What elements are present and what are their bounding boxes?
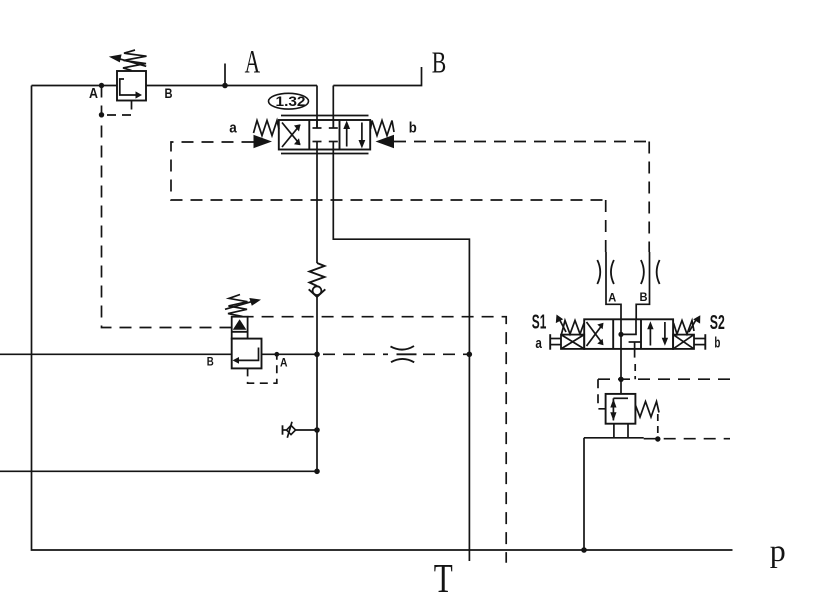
wire drain stub dashed link [634,364,636,379]
reducing valve V2 pilot head [232,317,248,339]
node junction (584,550) [581,547,587,553]
svg-text:p: p [770,532,786,568]
wire to node (317,430) and below [316,354,318,471]
svg-text:A: A [608,291,616,305]
wire reducing valve outlet to node [262,353,318,355]
wire V3 spring drain dashed [657,414,659,439]
node junction (469.3,354.3) [467,352,473,358]
valve 1.32 right spring [371,121,395,136]
S-valve left solenoid box [561,335,584,349]
S-valve right spring [674,321,695,335]
wire left vertical main frame [32,86,733,551]
wire test point to line [296,429,317,431]
svg-text:T: T [434,555,453,601]
wire V1 drain dashed [102,101,132,116]
S-valve right cell flow arrows [649,327,651,346]
relief valve V1 adjust arrow [118,58,146,66]
reducing valve V2 spring [228,295,248,317]
node junction A-tap (225,85.5) [222,83,228,89]
wire relief pilot dashed left loop [598,379,606,409]
svg-text:a: a [229,119,237,136]
test point symbol [282,425,284,434]
relief valve V3 spring [635,402,659,418]
relief valve V1 internal flow arrow [120,79,136,95]
valve 1.32 proportional line bottom [281,153,369,155]
svg-text:b: b [409,120,417,137]
nozzle B restrictor [641,260,644,284]
wire orifice line dashed [317,353,388,355]
wire relief pilot dashed horizontal [598,378,733,380]
node junction (317,354.3) [314,352,320,358]
S-valve right solenoid arrow [689,318,697,332]
S-valve port a cap [549,334,551,350]
check valve seat [309,289,326,297]
reducing valve V2 body [232,339,262,369]
node junction (657.8,439) [655,436,660,441]
svg-text:B: B [640,290,648,304]
wire check valve to node [316,297,318,355]
reducing valve V2 adjust arrow [225,302,251,310]
relief valve V1 adjustable spring [123,50,147,70]
S-valve centre cell A-B link [621,319,636,334]
wire pilot b dashed drop [648,142,650,253]
wire B into S-valve [636,252,649,319]
wire pilot dashed vertical x=101.5 down to reducing valve [102,86,232,328]
wire top main line left segment (to valve V1 port A) [32,85,118,87]
wire top main line right segment (V1 B to valve 1.32) [146,85,317,87]
svg-text:A: A [89,86,98,102]
wire V2 pilot loop dashed [248,354,277,383]
valve 1.32 left cell crossed arrows [282,125,300,147]
wire pilot a dashed loop [171,142,606,200]
wire B-port drop [333,67,421,86]
valve 1.32 left pilot arrow a [254,135,273,148]
relief valve V3 internal path [613,397,628,399]
wire A below valve 1.32 to check valve [316,150,318,264]
svg-text:A: A [280,355,288,369]
S-valve left spring [562,321,585,335]
svg-text:S2: S2 [710,312,725,334]
wire V3 to bottom P line [583,438,585,550]
wire A line into valve 1.32 [316,86,318,129]
valve 1.32 left spring [254,121,280,136]
node junction (317,472) [314,469,320,475]
nozzle A restrictor [597,260,600,284]
node junction (317,430) [314,427,320,433]
svg-text:a: a [535,335,542,352]
wire A-port stub [224,64,226,86]
wire S-valve output down [620,349,622,394]
valve 1.32 right pilot arrow b [376,135,395,148]
svg-text:b: b [714,335,720,352]
check valve ball [313,286,322,295]
S-valve left solenoid arrow [560,320,567,333]
wire B below valve 1.32 going right [333,150,469,562]
wire left feed line lower [0,470,317,472]
orifice restrictor arcs [391,346,415,350]
wire V2 remote pilot dashed to right [248,317,507,563]
wire drain dashed right [644,438,730,440]
valve 1.32 proportional line top [281,115,369,117]
relief valve V1 body [117,71,146,101]
wire pilot a dashed drop [605,200,607,252]
svg-text:B: B [207,354,214,368]
wire V3 tank header [584,437,644,439]
node junction (621,379.3) [618,377,623,382]
reducing valve V2 internal arrow [238,348,259,361]
svg-text:B: B [165,86,173,101]
valve 1.32 body [279,120,370,150]
tag oval 1.32 [269,93,309,109]
svg-text:A: A [245,44,261,80]
S-valve spool body [584,319,673,349]
wire A into S-valve [606,252,621,319]
relief valve V3 body [606,394,636,424]
node junction on main line at x=101.5 [99,83,104,88]
S-valve port b cap [704,334,706,350]
relief valve V3 internal arrows [610,399,616,408]
valve 1.32 centre cell blocked ports [316,120,318,128]
reducing valve V2 pilot triangle [233,319,247,330]
S-valve right solenoid box [673,335,694,349]
svg-text:S1: S1 [532,311,547,333]
wire pilot b dashed [394,141,649,143]
svg-text:1.32: 1.32 [276,93,306,109]
valve 1.32 right cell flow arrows [346,126,348,147]
svg-text:B: B [432,45,447,80]
check valve spring [310,263,325,286]
S-valve centre cell blocked T port [629,341,641,343]
wire left feed line B (reducing valve inlet) [0,353,232,355]
node junction dashed at (101.5,114.8) [99,112,104,117]
wire B line into valve 1.32 [332,86,334,129]
S-valve left cell crossed arrows [587,325,603,347]
node small junction (276.8,354.3) [274,352,279,357]
